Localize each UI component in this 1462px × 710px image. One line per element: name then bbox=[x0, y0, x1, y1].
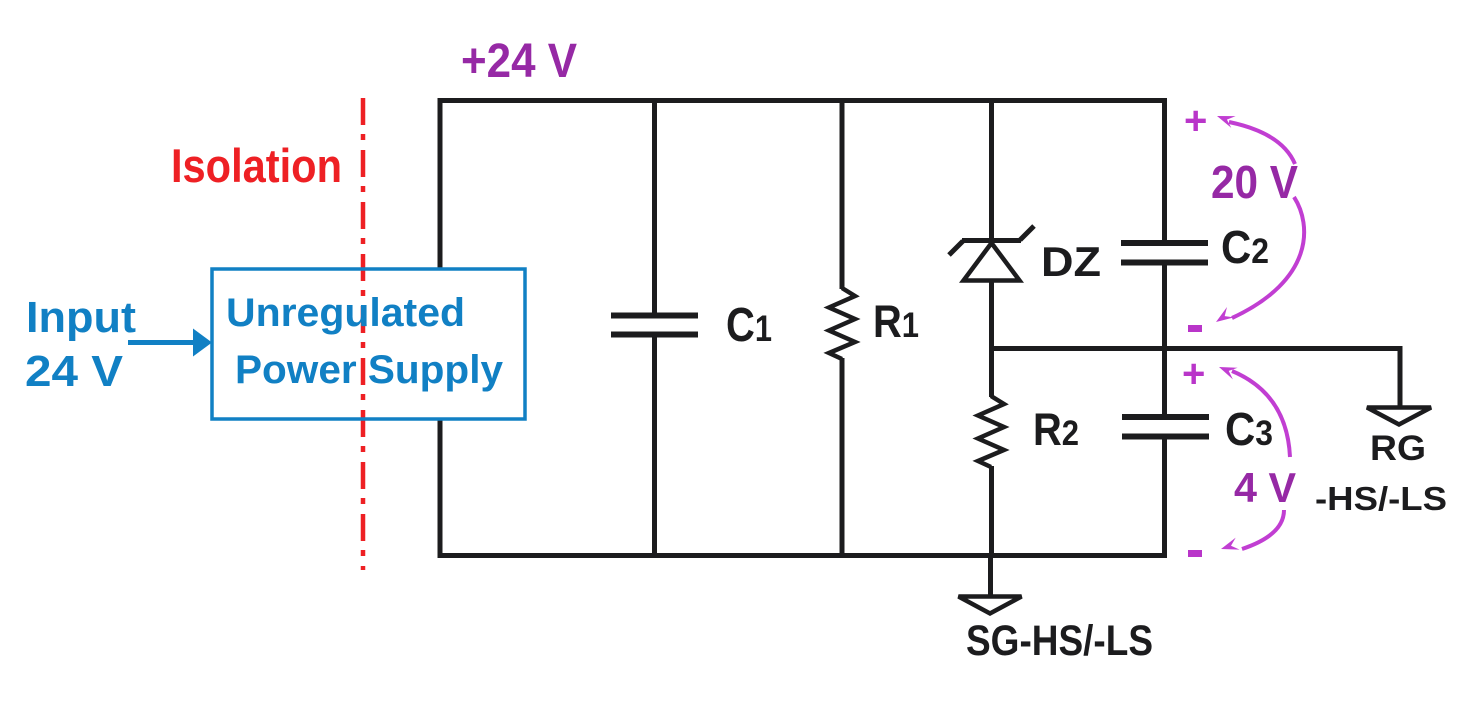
wire: left edge upper segment bbox=[438, 98, 443, 269]
capacitor C3 bbox=[1122, 414, 1209, 420]
annotation 4V minus bbox=[1188, 550, 1202, 557]
svg-text:-HS/-LS: -HS/-LS bbox=[1315, 480, 1447, 517]
ground RG bbox=[1367, 408, 1431, 425]
svg-text:C1: C1 bbox=[726, 299, 772, 352]
wire: bottom rail bbox=[438, 553, 1167, 558]
isolation boundary dash-dot line bbox=[361, 98, 366, 570]
wire: middle rail to RG bbox=[992, 349, 1401, 408]
wire: left edge lower segment bbox=[438, 419, 443, 558]
svg-text:RG: RG bbox=[1370, 429, 1426, 468]
svg-text:4 V: 4 V bbox=[1234, 464, 1296, 511]
annotation 4V upper arc bbox=[1232, 371, 1290, 457]
capacitor C1 bbox=[611, 313, 698, 319]
zener diode DZ bbox=[949, 226, 1034, 281]
wire: DZ to middle rail and R2 bbox=[989, 282, 994, 397]
wire: DZ branch upper bbox=[989, 100, 994, 242]
capacitor C2 bbox=[1121, 240, 1208, 246]
svg-text:C3: C3 bbox=[1225, 403, 1273, 455]
wire: right edge C2 to C3 bbox=[1162, 264, 1167, 415]
wire: R1 branch upper bbox=[840, 100, 845, 289]
annotation 20V minus bbox=[1188, 325, 1202, 332]
ground SG bbox=[959, 597, 1022, 614]
svg-text:20 V: 20 V bbox=[1211, 156, 1298, 208]
annotation 20V lower arc bbox=[1232, 197, 1304, 318]
svg-text:+: + bbox=[1184, 99, 1207, 143]
svg-text:Power Supply: Power Supply bbox=[235, 348, 504, 392]
svg-text:Unregulated: Unregulated bbox=[226, 291, 465, 335]
input arrow bbox=[128, 340, 196, 345]
wire: C1 branch upper bbox=[652, 100, 657, 314]
svg-text:C2: C2 bbox=[1221, 221, 1269, 273]
resistor R2 bbox=[978, 396, 1004, 467]
wire: R1 branch lower bbox=[840, 358, 845, 556]
wire: R2 branch lower bbox=[989, 466, 994, 556]
svg-text:+24 V: +24 V bbox=[461, 35, 577, 88]
block: unregulated power supply bbox=[212, 269, 525, 419]
svg-text:DZ: DZ bbox=[1041, 238, 1101, 285]
svg-text:Isolation: Isolation bbox=[171, 139, 342, 192]
resistor R1 bbox=[829, 288, 855, 359]
svg-text:SG-HS/-LS: SG-HS/-LS bbox=[966, 617, 1153, 665]
svg-text:24 V: 24 V bbox=[25, 347, 124, 396]
wire: SG stem bbox=[988, 556, 993, 596]
svg-text:R1: R1 bbox=[873, 296, 919, 347]
svg-text:R2: R2 bbox=[1033, 404, 1079, 455]
annotation 4V lower arc bbox=[1242, 510, 1284, 549]
wire: right edge upper (to C2 top plate) bbox=[1162, 98, 1167, 241]
wire: top rail +24V bbox=[438, 98, 1167, 103]
svg-text:+: + bbox=[1182, 352, 1205, 396]
svg-text:Input: Input bbox=[26, 293, 136, 342]
wire: right edge below C3 bbox=[1162, 438, 1167, 558]
annotation 20V upper arc bbox=[1229, 122, 1295, 164]
wire: C1 branch lower bbox=[652, 336, 657, 556]
